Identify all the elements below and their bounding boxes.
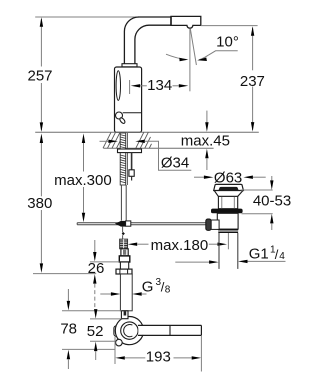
svg-text:8: 8 — [165, 285, 171, 296]
dimension max.180 — [128, 243, 138, 246]
small lever circle — [116, 112, 123, 119]
dimension 380 — [40, 134, 43, 144]
cap dark dome — [219, 187, 239, 190]
bracket tab — [121, 311, 128, 319]
faucet spout outer curve — [124, 17, 138, 64]
dimension max.45 — [206, 111, 208, 123]
waste body — [217, 213, 238, 229]
bracket mounting bump — [114, 326, 121, 337]
centerline tick at faucet axis — [129, 80, 131, 94]
lever teardrop — [119, 117, 126, 124]
mounting bolt — [131, 153, 133, 170]
deck bottom line — [104, 147, 214, 149]
threaded shank — [120, 133, 126, 185]
dimension 40-53 — [271, 176, 273, 180]
hose nipple — [121, 249, 128, 256]
svg-text:26: 26 — [88, 260, 105, 277]
extension line: spout outlet level — [201, 25, 258, 27]
svg-text:257: 257 — [27, 68, 52, 85]
faucet body — [115, 67, 142, 132]
angle arc right with arrow — [199, 55, 209, 60]
svg-text:4: 4 — [279, 251, 285, 262]
svg-text:193: 193 — [146, 348, 171, 365]
pop-up rod (horizontal) — [77, 222, 206, 224]
svg-text:380: 380 — [27, 195, 52, 212]
svg-text:237: 237 — [240, 73, 265, 90]
extension line: G3/8 connection level — [33, 273, 96, 275]
drain centerline extension — [227, 233, 229, 249]
sensor window oval — [116, 71, 120, 101]
coupling nut — [218, 229, 238, 233]
dimension 193 — [114, 337, 116, 364]
spout end piece with aerator notch — [171, 16, 201, 28]
body internal line — [123, 112, 142, 114]
extension line: spout top level — [35, 16, 138, 18]
mounting washer under deck — [118, 149, 142, 153]
hex nut G3/8 — [116, 269, 132, 274]
tailpipe — [218, 233, 220, 269]
svg-text:52: 52 — [87, 323, 104, 340]
spout joint line — [170, 16, 172, 25]
rod connector block — [211, 220, 219, 229]
deck top line — [35, 131, 259, 133]
svg-text:Ø34: Ø34 — [161, 155, 189, 172]
angle arc left with arrow — [166, 54, 187, 59]
dimension 237 — [252, 28, 254, 130]
svg-text:40-53: 40-53 — [253, 193, 291, 210]
10 degree slanted line — [190, 29, 196, 65]
bracket inner arc — [124, 325, 133, 337]
dimension 257 (vertical line with text) — [40, 19, 42, 130]
svg-text:G1: G1 — [249, 245, 269, 262]
10 degree reference vertical line — [189, 29, 191, 92]
rubber seal — [211, 209, 243, 214]
dimension 26 — [94, 240, 96, 252]
small screw circle — [116, 339, 123, 346]
deck hatching left — [103, 132, 122, 148]
svg-text:max.300: max.300 — [54, 172, 112, 189]
G1 1/4 left arrow — [175, 261, 209, 263]
spout collar — [122, 64, 137, 67]
rod knob — [206, 219, 211, 230]
pop-up waste cap — [214, 184, 244, 190]
10 degree leader line — [208, 51, 237, 55]
svg-text:max.180: max.180 — [151, 237, 209, 254]
supply hose lines — [120, 185, 122, 221]
control rod lever — [138, 326, 201, 335]
threaded tube G3/8 — [120, 274, 132, 311]
svg-text:/: / — [275, 247, 279, 262]
svg-text:max.45: max.45 — [181, 132, 230, 149]
dimension diameter 34 — [100, 140, 109, 142]
faucet spout inner curve — [135, 25, 149, 64]
svg-text:10°: 10° — [216, 33, 239, 50]
dimension diameter 63 — [194, 176, 204, 178]
svg-text:78: 78 — [60, 321, 77, 338]
flange shoulders — [214, 191, 243, 197]
bracket mid circle — [121, 322, 138, 339]
svg-text:134: 134 — [147, 77, 172, 94]
connector block — [119, 256, 130, 262]
dimension 78 — [67, 289, 69, 301]
deck hatching right — [136, 132, 152, 148]
flange body — [218, 196, 237, 208]
dimension max.300 — [82, 134, 85, 144]
svg-text:G: G — [142, 279, 154, 296]
dimension 52 — [94, 309, 97, 319]
valve body — [120, 262, 128, 269]
rod clamp on hose — [115, 221, 121, 227]
ribbed hose section — [120, 239, 128, 249]
dimension 134 — [131, 84, 141, 87]
hose below clamp — [122, 227, 124, 233]
shank right edge — [126, 133, 128, 185]
spout horizontal tube — [139, 16, 172, 18]
bracket outer circle — [115, 317, 143, 345]
